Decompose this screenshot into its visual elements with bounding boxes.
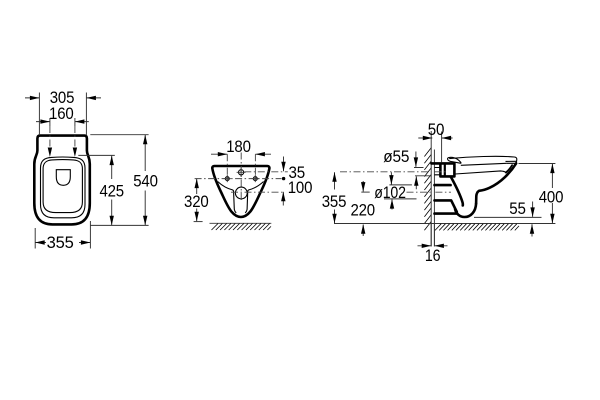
rear interior left line xyxy=(218,182,237,213)
bracket / inlet socket outline xyxy=(431,163,454,176)
side centerline inlet xyxy=(340,171,448,173)
svg-text:ø55: ø55 xyxy=(383,148,409,166)
svg-text:180: 180 xyxy=(226,138,251,156)
dim 50 arrows xyxy=(418,137,452,139)
dim 305 arrows xyxy=(25,97,101,99)
dim 100 arrow xyxy=(282,192,284,206)
dim 425 extension top xyxy=(78,154,115,156)
seat ring outer xyxy=(41,157,86,218)
dim o55 ext lines xyxy=(414,168,431,176)
bowl bottom U xyxy=(455,204,476,218)
dim 50 ext right xyxy=(441,132,443,163)
arrow tip centerline right xyxy=(73,148,77,158)
rear interior right line xyxy=(245,182,263,213)
dim 540 line xyxy=(144,135,146,225)
arrow tip centerline left xyxy=(48,148,52,158)
dim 305 extension lines xyxy=(39,93,86,136)
dim 355 side line xyxy=(334,172,336,223)
dot end of h2 xyxy=(282,177,285,180)
svg-text:400: 400 xyxy=(539,188,564,206)
centerline h1 (inlet) xyxy=(244,171,287,173)
dim 400 line xyxy=(551,164,553,224)
dim 320 bottom tick xyxy=(194,221,203,223)
rim top line xyxy=(455,171,506,174)
dim 320 line xyxy=(196,179,198,222)
dim 540 extension top xyxy=(90,134,148,136)
back steps to wall xyxy=(435,185,458,214)
seat slab front xyxy=(506,161,517,163)
dim o102 arrows xyxy=(390,172,393,209)
svg-text:ø102: ø102 xyxy=(374,184,406,202)
rear outline xyxy=(212,166,269,217)
floor hatch xyxy=(435,224,519,231)
svg-text:16: 16 xyxy=(425,247,441,265)
centerline h3 (outlet) xyxy=(231,191,285,193)
rear ground hatch xyxy=(212,224,272,231)
toilet plan outer body xyxy=(34,136,90,225)
sump / water area xyxy=(56,170,70,186)
inlet hole with cross xyxy=(239,170,244,175)
socket inner lines xyxy=(444,165,446,177)
svg-text:100: 100 xyxy=(288,179,313,197)
lid bottom xyxy=(461,163,507,165)
svg-text:50: 50 xyxy=(428,121,445,139)
svg-text:160: 160 xyxy=(49,105,74,123)
side centerline outlet xyxy=(407,191,452,193)
dim 16 arrows xyxy=(418,245,448,247)
dim 400 ext top xyxy=(519,163,556,165)
centerline right xyxy=(74,118,76,126)
dim o55 arrows xyxy=(415,152,417,190)
vertical centerline xyxy=(240,153,242,202)
bowl outer profile xyxy=(476,163,516,203)
svg-text:355: 355 xyxy=(322,193,347,211)
rim front lip inner xyxy=(506,165,512,172)
svg-text:220: 220 xyxy=(350,202,375,220)
centerline left (fixing hole axis) xyxy=(49,118,51,126)
dim 160 arrows xyxy=(36,121,89,123)
rear ground line xyxy=(210,222,272,224)
wall hatch xyxy=(424,148,431,231)
dim 180 arrows xyxy=(211,153,271,155)
dim 425 line xyxy=(111,156,113,226)
dim 355 extension lines xyxy=(35,221,90,249)
svg-text:540: 540 xyxy=(133,173,158,191)
dim 180 extension centerlines xyxy=(227,154,255,176)
dim 220 arrows xyxy=(362,181,364,236)
dim 55 arrows xyxy=(531,202,534,237)
dim 220 tick xyxy=(361,191,369,193)
dim o102 ext lines xyxy=(384,185,417,199)
svg-text:320: 320 xyxy=(184,193,209,211)
svg-text:355: 355 xyxy=(47,234,74,252)
right fixing hole xyxy=(253,177,257,181)
dim 540/425 extension bottom xyxy=(90,224,149,226)
svg-text:425: 425 xyxy=(99,182,124,200)
svg-text:305: 305 xyxy=(50,89,75,107)
outlet circle xyxy=(235,187,247,199)
trap diagonal xyxy=(451,177,463,206)
dim 55 ref line xyxy=(474,216,542,218)
lid top xyxy=(449,156,517,163)
svg-text:55: 55 xyxy=(509,200,526,218)
dim 35 arrow xyxy=(283,157,285,172)
floor line xyxy=(334,223,555,225)
left fixing hole xyxy=(225,177,229,181)
seat hinge bumper xyxy=(448,157,461,163)
dim 16 ext lines xyxy=(431,224,434,246)
wall face lines xyxy=(431,131,434,246)
seat ring inner xyxy=(43,160,82,213)
dim 355 line xyxy=(35,242,90,244)
centerline h2 (fixing holes) xyxy=(195,178,282,180)
